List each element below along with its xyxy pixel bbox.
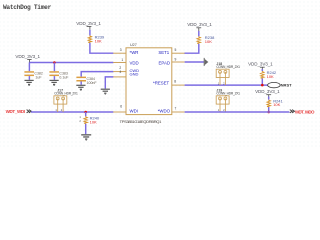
pin 3 *WR <box>113 48 138 55</box>
svg-text:3: 3 <box>120 48 122 52</box>
capacitor C384 <box>76 77 97 85</box>
svg-text:*WR: *WR <box>130 50 139 55</box>
svg-text:CONN_HDR_2X1: CONN_HDR_2X1 <box>216 65 240 69</box>
wire R242 to *RESET net <box>261 79 263 86</box>
resistor R238 <box>197 35 215 44</box>
pin 7 *WDO <box>158 107 185 114</box>
connector J19 CONN_HDR_2X1 <box>216 88 240 112</box>
connector J18 CONN_HDR_2X1 <box>216 62 240 86</box>
pin 2 CWD <box>113 66 139 73</box>
svg-text:WDT_WDI: WDT_WDI <box>6 109 26 114</box>
power VDD_3V3_1 (above R242) <box>248 61 273 71</box>
svg-text:U27: U27 <box>130 43 137 47</box>
svg-text:1: 1 <box>121 58 123 62</box>
power VDD_3V3_1 (above R238) <box>187 22 212 36</box>
svg-text:10K: 10K <box>90 119 97 124</box>
svg-text:NRST: NRST <box>281 82 293 87</box>
ground (pin 4) <box>101 89 110 95</box>
node R240 tap <box>84 111 87 114</box>
ground (C384) <box>76 85 85 91</box>
svg-text:CONN_HDR_2X1: CONN_HDR_2X1 <box>54 92 78 96</box>
resistor R242 <box>261 70 277 79</box>
wire pin 2 CWD to C384 <box>81 72 113 77</box>
svg-text:VDD_3V3_1: VDD_3V3_1 <box>187 22 212 27</box>
wire pin 4 GND to ground <box>105 77 113 89</box>
resistor R239 <box>88 35 105 44</box>
svg-text:9: 9 <box>174 58 176 62</box>
svg-text:10K: 10K <box>273 102 280 107</box>
svg-text:GND: GND <box>130 72 139 77</box>
svg-text:6: 6 <box>120 104 122 108</box>
wire VDD rail to pin 1 <box>29 62 113 64</box>
svg-text:7: 7 <box>174 107 176 111</box>
pin 4 GND <box>113 70 138 77</box>
svg-text:2: 2 <box>79 119 81 123</box>
svg-text:0.1uF: 0.1uF <box>59 75 69 79</box>
connector J17 CONN_HDR_2X1 <box>54 88 78 112</box>
svg-text:SET1: SET1 <box>158 50 169 55</box>
pin 1 VDD <box>113 58 138 66</box>
node R242 junction <box>261 84 264 87</box>
svg-text:VDD: VDD <box>130 60 139 65</box>
wire *WDO net <box>185 111 290 113</box>
svg-text:1: 1 <box>79 115 81 119</box>
IC U27 TPS3851 <box>120 43 172 124</box>
svg-text:TPS3851G18EQDRBRQ1: TPS3851G18EQDRBRQ1 <box>120 119 163 124</box>
svg-text:10K: 10K <box>267 74 274 79</box>
pin 6 WDI <box>113 104 138 113</box>
capacitor C382 <box>24 63 43 80</box>
ground (C382) <box>25 80 34 86</box>
svg-text:CONN_HDR_2X1: CONN_HDR_2X1 <box>216 92 240 96</box>
wire R241 to *WDO net <box>268 107 270 112</box>
svg-text:VDD_3V3_1: VDD_3V3_1 <box>248 61 273 66</box>
EPAD net arrow <box>204 58 209 66</box>
power VDD_3V3_1 (above R239) <box>76 21 101 36</box>
svg-text:10K: 10K <box>95 39 102 44</box>
ground (C383) <box>50 80 59 86</box>
wire *RESET net <box>185 84 268 86</box>
svg-text:8: 8 <box>174 79 176 83</box>
wire R238 to pin 5 <box>184 44 198 53</box>
pin 8 *RESET <box>153 79 185 85</box>
svg-text:WDT_WDO: WDT_WDO <box>295 109 315 114</box>
svg-text:*RESET: *RESET <box>153 81 170 86</box>
svg-text:VDD_3V3_1: VDD_3V3_1 <box>15 54 40 59</box>
node R241 junction <box>267 111 270 114</box>
power VDD_3V3_1 (above R241) <box>255 89 280 100</box>
capacitor C383 <box>49 63 69 80</box>
svg-text:5: 5 <box>174 48 176 52</box>
power VDD_3V3_1 (left rail) <box>15 54 40 62</box>
svg-text:*WDO: *WDO <box>158 109 171 114</box>
svg-text:VDD_3V3_1: VDD_3V3_1 <box>255 89 280 94</box>
svg-text:100nF: 100nF <box>87 81 98 85</box>
resistor R241 <box>267 98 284 107</box>
ground (R240) <box>81 134 91 141</box>
wire EPAD stub <box>185 61 204 63</box>
pin 5 SET1 <box>158 48 184 55</box>
off-page connector WDT_WDO <box>290 109 315 114</box>
svg-text:1uF: 1uF <box>35 75 42 79</box>
svg-text:EPAD: EPAD <box>158 60 170 65</box>
svg-text:VDD_3V3_1: VDD_3V3_1 <box>76 21 101 26</box>
wire R239 to pin 3 <box>90 43 114 53</box>
node C383 tap <box>53 61 56 64</box>
svg-text:WDI: WDI <box>130 109 138 114</box>
node NRST oval <box>268 82 293 87</box>
svg-text:10K: 10K <box>205 39 212 44</box>
wire R240 to ground <box>85 124 87 134</box>
pin 9 EPAD <box>158 58 184 66</box>
off-page connector WDT_WDI <box>6 109 32 114</box>
wire WDT_WDI to pin 6 <box>31 111 113 113</box>
resistor R240 <box>79 112 100 124</box>
svg-text:4: 4 <box>119 70 121 74</box>
svg-text:WatchDog Timer: WatchDog Timer <box>3 4 52 11</box>
